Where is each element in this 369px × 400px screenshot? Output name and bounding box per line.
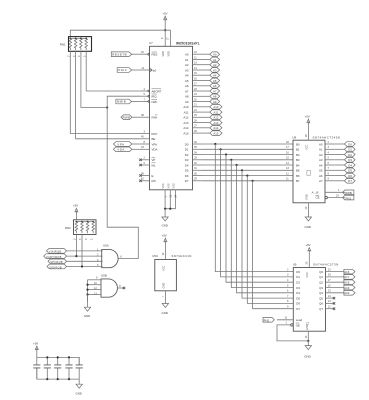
svg-text:D6: D6 [348,174,352,178]
capacitor C5 [76,357,83,379]
svg-text:+5V: +5V [73,204,78,208]
pin B2 [286,150,300,157]
svg-text:A11: A11 [184,110,189,114]
svg-text:A0: A0 [213,53,217,57]
flag RESETB [111,52,140,57]
pin U8 A5 [319,166,335,173]
ground U5C [161,291,169,315]
pin U9 D5 [287,294,300,301]
svg-text:A20: A20 [344,291,349,295]
svg-text:+5V: +5V [305,114,310,118]
svg-text:SIDIRQB: SIDIRQB [49,265,62,269]
flag SIDIRQB [47,264,67,269]
svg-text:A12: A12 [183,116,189,120]
svg-text:φ0: φ0 [153,68,157,72]
junction dot IRQ pull-up [106,106,108,108]
svg-text:VPA: VPA [117,142,124,146]
capacitor C4 [65,357,72,379]
pin U5B in 10 [88,281,102,285]
svg-text:U5B: U5B [101,273,107,277]
pin A10 [183,103,202,110]
svg-text:SPIIRQB: SPIIRQB [50,260,63,264]
svg-text:A0: A0 [185,53,189,57]
pin A11 [184,108,203,115]
svg-text:A5: A5 [213,79,217,83]
svg-text:VDA: VDA [117,148,124,152]
ground U9 [304,331,312,358]
pin A12 [183,113,202,120]
pin U9 D3 [287,283,300,290]
junction D3 [230,159,232,161]
pin ML nc [139,161,156,168]
svg-text:B6: B6 [296,174,300,178]
svg-text:VDA: VDA [152,148,158,152]
junction OE gnd [307,340,309,342]
svg-text:CE: CE [316,196,320,200]
pin A3 [185,66,203,73]
wire D0 to U8 [203,143,294,145]
wire +5V rail to RN1 [70,30,165,36]
svg-text:SN74AHC573N: SN74AHC573N [313,263,339,267]
svg-text:Load: Load [296,318,303,322]
wire RN1 pin2 to RDY [70,51,140,133]
pin RES [140,50,158,57]
svg-text:A3: A3 [185,68,189,72]
flag A5 [203,78,220,83]
pin U9 D2 [287,278,300,285]
svg-text:BE: BE [152,137,156,141]
svg-text:Q3: Q3 [319,286,323,290]
svg-text:A19: A19 [344,286,349,290]
svg-text:A4: A4 [319,163,323,167]
pin A8 [185,92,203,99]
svg-text:A3: A3 [319,158,323,162]
pin D2 [185,150,203,157]
pin RDY [140,129,158,136]
svg-text:GND: GND [304,354,310,358]
svg-text:RWB: RWB [123,116,131,120]
svg-text:VSS: VSS [166,183,170,188]
wire VDD1 [164,30,166,46]
svg-text:Q7: Q7 [319,307,323,311]
flag D7 ext [335,179,355,184]
pin MX nc [139,177,156,184]
svg-text:A0: A0 [319,142,323,146]
pin U5B in 9 [88,276,102,280]
pin B4 [286,161,300,168]
pin VSS1 [163,190,167,209]
svg-text:B3: B3 [296,158,300,162]
wire D2 to U9 [226,155,293,283]
svg-text:B5: B5 [296,169,300,173]
svg-text:A8: A8 [213,95,217,99]
pin U9 D6 [287,299,300,306]
svg-text:Q6: Q6 [319,302,323,306]
flag A18 [344,280,355,285]
pin BE [140,135,156,142]
svg-text:Q1: Q1 [319,275,323,279]
flag A14 [203,126,223,131]
svg-text:RWB: RWB [345,191,352,195]
pin B3 [286,156,300,163]
pin RWB [140,113,157,120]
svg-text:A10: A10 [213,105,218,109]
svg-text:RES: RES [152,53,158,57]
pin D3 [185,156,203,163]
junction dot +5V [164,29,166,31]
svg-text:GND: GND [305,194,309,200]
svg-text:PH1: PH1 [346,196,352,200]
svg-text:Q4: Q4 [319,291,323,295]
pin D5 [185,166,203,173]
pin Q2 [319,278,344,285]
svg-text:B2: B2 [296,153,300,157]
junction gnd tie [86,284,88,286]
svg-text:GND: GND [161,283,165,289]
junction cap top [46,356,48,358]
svg-text:D4: D4 [296,291,300,295]
svg-text:A16: A16 [344,270,349,274]
pin Q7 [319,305,335,312]
ground caps [76,379,83,395]
latch U9 body [293,263,339,332]
svg-text:D7: D7 [296,307,300,311]
wire caps bottom rail [37,368,79,379]
wire D0 to U9 [215,144,293,272]
svg-text:D0: D0 [296,270,300,274]
junction cap top [68,356,70,358]
svg-text:D0: D0 [348,142,352,146]
svg-text:A4: A4 [185,74,189,78]
svg-text:B7: B7 [296,179,300,183]
svg-text:VCC: VCC [305,272,309,278]
pin DIR U8 [325,188,345,192]
svg-text:B0: B0 [296,142,300,146]
svg-text:C1: C1 [306,321,310,325]
svg-text:A2: A2 [185,63,189,67]
junction D6 [246,175,248,177]
junction gnd tie [86,289,88,291]
svg-text:A4: A4 [213,74,217,78]
svg-text:ABORT: ABORT [152,89,162,93]
pin VPA [140,140,157,147]
svg-text:D1: D1 [348,148,352,152]
flag D0 ext [335,142,355,147]
flag D1 ext [335,147,355,152]
wire D7 to U8 [203,180,294,182]
svg-text:RN2: RN2 [65,226,71,230]
wire irq in 2 [67,255,103,257]
svg-text:A9: A9 [185,100,189,104]
wire RN1 pin3 to BE [76,51,140,139]
svg-text:A15: A15 [213,131,218,135]
wire RN1 pin4 to IRQ net [81,51,107,107]
wire irq in 1 [67,250,103,252]
flag A11 [203,110,223,115]
pin D6 [185,171,203,178]
capacitor C3 [54,357,61,379]
flag A15 [203,131,223,136]
junction cap bottom [57,378,59,380]
flag VPA [113,142,139,147]
svg-text:U7: U7 [149,41,153,45]
pin ABORT [140,87,162,94]
svg-text:A9: A9 [213,100,217,104]
svg-text:A17: A17 [344,275,349,279]
svg-text:SN74HC21N: SN74HC21N [171,254,191,258]
svg-text:A6: A6 [213,84,217,88]
wire irq in 3 [67,260,103,262]
flag A6 [203,84,220,89]
svg-text:A2: A2 [319,153,323,157]
svg-text:A3: A3 [213,68,217,72]
pin D4 [185,161,203,168]
wire D2 to U8 [203,154,294,156]
wire D5 to U9 [242,170,293,298]
flag NMIB [116,99,140,104]
svg-text:VSS: VSS [172,183,176,188]
power +5V U9 [305,243,311,268]
svg-text:A10: A10 [183,105,189,109]
svg-text:Q0: Q0 [319,270,323,274]
svg-text:+5V: +5V [305,243,310,247]
pin A4 [185,71,203,78]
ground U8 [304,203,312,229]
resistor network RN2 [65,220,96,240]
resistor network RN1 [60,37,92,57]
svg-text:PHI2: PHI2 [118,68,127,72]
pin A14 [183,124,202,131]
svg-text:SN74AHCT245N: SN74AHCT245N [313,135,341,139]
svg-text:+5V: +5V [33,341,38,345]
svg-text:B1: B1 [296,148,300,152]
pin U9 D1 [287,273,300,280]
svg-text:A13: A13 [213,121,218,125]
svg-text:A1: A1 [213,58,217,62]
svg-text:NMIB: NMIB [117,100,126,104]
flag D4 ext [335,163,355,168]
svg-text:D5: D5 [185,169,189,173]
flag UARTIRQB [44,254,67,259]
pin IRQ [140,92,157,99]
svg-text:U8: U8 [292,135,296,139]
flag VIAIRQB [47,249,67,254]
svg-text:A1: A1 [185,58,189,62]
pin B1 [286,145,300,152]
flag A0 [203,52,220,57]
pin D0 [185,140,203,147]
junction cap bottom [68,378,70,380]
svg-text:A18: A18 [344,281,349,285]
wire D3 to U8 [203,159,294,161]
power +5V RN2 [73,204,78,220]
flag D5 ext [335,168,355,173]
pin B6 [286,171,300,178]
wire RN2 pin3 down [81,235,83,267]
svg-text:GND: GND [76,391,82,395]
wire D6 to U9 [247,176,293,304]
pin A2 [185,61,203,68]
pin A0 [185,50,203,57]
flag A19 [344,285,355,290]
op U7 W65C816 body [149,41,200,190]
svg-text:B4: B4 [296,163,300,167]
svg-text:ML: ML [152,163,156,167]
junction D7 [252,180,254,182]
pin NMI [140,97,157,104]
svg-text:W65C816SxPL: W65C816SxPL [176,41,200,45]
ground U5B [84,295,91,318]
wire caps top rail [37,357,79,365]
svg-text:D5: D5 [348,169,352,173]
svg-text:VPA: VPA [152,142,158,146]
pin U9 D7 [287,305,300,312]
svg-text:Q5: Q5 [319,296,323,300]
junction RN2 row2 [75,255,77,257]
svg-text:GND: GND [162,311,168,315]
svg-text:PH2: PH2 [264,319,270,323]
pin A1 [185,55,203,62]
svg-text:D3: D3 [296,286,300,290]
svg-text:A7: A7 [319,179,323,183]
flag A13 [203,120,223,125]
junction D5 [241,169,243,171]
pin U8 A7 [319,177,335,184]
and-gate U5A [102,244,123,268]
flag PH1 [343,195,354,200]
flag A16 [344,269,355,274]
flag D6 ext [335,173,355,178]
wire D6 to U8 [203,175,294,177]
svg-text:D0: D0 [185,142,189,146]
svg-text:D4: D4 [348,163,352,167]
flag A7 [203,89,220,94]
junction D4 [236,164,238,166]
wire D4 to U9 [237,165,294,293]
svg-text:A15: A15 [183,131,189,135]
svg-text:U5C: U5C [152,254,158,258]
flag D3 ext [335,158,355,163]
pin A9 [185,97,203,104]
pin B5 [286,166,300,173]
junction VSS b [169,208,171,210]
wire irq in 4 [67,266,103,268]
pin U8 A1 [319,145,335,152]
flag VDA [113,147,139,152]
pin U8 A3 [319,156,335,163]
flag D2 ext [335,152,355,157]
junction RN2 row4 [81,265,83,267]
wire D1 to U9 [221,149,294,277]
wire RN1 pin5 to ABORT [86,51,140,91]
pin VSS3 [165,190,178,209]
wire D3 to U9 [231,160,293,288]
pin PHI2 clock [140,66,157,73]
pin U8 A4 [319,161,335,168]
pin U5B in 12 [88,286,102,290]
svg-text:A5: A5 [185,79,189,83]
svg-text:VCC: VCC [305,144,309,150]
wire D4 to U8 [203,164,294,166]
svg-text:D2: D2 [348,153,352,157]
pin A15 [183,129,202,136]
flag A4 [203,73,220,78]
svg-text:VIAIRQB: VIAIRQB [49,250,62,254]
svg-text:GND: GND [162,224,168,228]
pin D1 [185,145,203,152]
svg-text:A14: A14 [183,126,189,130]
pin A5 [185,76,203,83]
svg-text:RDY: RDY [152,132,158,136]
flag A9 [203,99,220,104]
pin D7 [185,177,203,184]
svg-text:D4: D4 [185,163,189,167]
svg-text:D6: D6 [185,174,189,178]
flag SPIIRQB [48,259,67,264]
svg-text:D2: D2 [296,281,300,285]
capacitor C1 [33,357,40,379]
svg-text:A→B: A→B [312,191,319,195]
svg-text:D1: D1 [185,148,189,152]
flag A12 [203,115,223,120]
wire D1 to U8 [203,148,294,150]
svg-text:UARTIRQB: UARTIRQB [46,255,62,259]
pin E nc [139,171,153,178]
svg-text:D6: D6 [296,302,300,306]
svg-text:D7: D7 [185,179,189,183]
pin U5B in 13 [88,291,102,295]
svg-text:IRQ: IRQ [152,95,158,99]
svg-text:D3: D3 [348,158,352,162]
ground CPU [162,209,169,228]
pin B0 [286,140,300,147]
flag A3 [203,68,220,73]
flag PH2 [263,318,274,323]
flag PHI2 [117,68,140,73]
pin OE U9 [286,321,294,326]
junction gnd tie [86,293,88,295]
flag A10 [203,105,223,110]
pin Load U9 [277,316,293,320]
pin VDA [140,145,158,152]
svg-text:A7: A7 [213,89,217,93]
flag A8 [203,94,220,99]
pin U8 A2 [319,150,335,157]
wire D7 to U9 [253,181,294,309]
svg-text:A6: A6 [319,174,323,178]
svg-text:NMI: NMI [152,100,157,104]
power +5V U5C [161,234,167,260]
junction D0 [214,143,216,145]
svg-text:A5: A5 [319,169,323,173]
wire VDD2 [165,30,170,46]
svg-text:A14: A14 [213,126,218,130]
svg-text:D2: D2 [185,153,189,157]
junction cap top [57,356,59,358]
power +5V caps [33,341,38,357]
svg-text:GND: GND [305,225,311,229]
wire OE to gnd [277,325,308,341]
svg-text:A6: A6 [185,84,189,88]
svg-text:E: E [152,174,154,178]
and-gate U5B [101,273,125,297]
pin Q5 [319,294,335,301]
pin B7 [286,177,300,184]
svg-text:A7: A7 [185,89,189,93]
svg-text:VP: VP [152,158,156,162]
junction VSS a [164,208,166,210]
power +5V main [162,11,167,30]
